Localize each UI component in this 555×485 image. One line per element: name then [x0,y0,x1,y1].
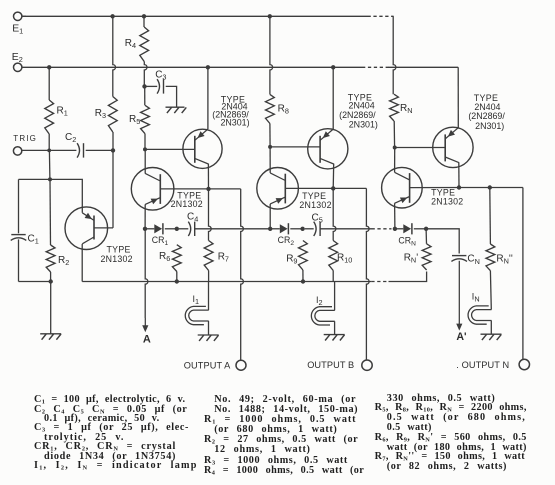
label Q1 TYPE [107,245,131,255]
wire stage1 NPN top [144,149,146,173]
svg-text:C5: C5 [312,213,323,225]
label C4 [187,212,198,224]
node stage2 collector junction [331,186,335,190]
wire C5 row dashed [372,228,392,230]
svg-text:E1: E1 [12,24,23,36]
label node A [143,334,151,346]
svg-text:OUTPUT A: OUTPUT A [184,360,231,370]
label E1 [12,24,23,36]
wire I2 top lead [334,282,336,311]
wire C3 to ground [166,86,177,106]
wire output A [209,189,244,360]
wire output N drop [522,188,524,360]
label stage2 NPN TYPE [302,191,326,201]
node stageN base junction [393,146,397,150]
wire output N row [459,187,523,189]
wire stage1 PNP base [145,148,195,150]
wire output B [333,188,369,360]
label R6 [159,251,170,263]
node rail2-R1 [47,65,51,69]
wire Q1 base [94,227,113,229]
lamp IN [468,306,491,324]
capacitor C2 [77,143,83,157]
label stage1 NPN 2N1302 [171,199,203,209]
wire CRN to RN' [414,228,426,230]
svg-text:C4: C4 [187,212,198,224]
ground R2 [40,334,61,340]
svg-text:2N301): 2N301) [475,121,504,131]
label R2 [58,255,69,267]
label node A' [456,331,466,343]
label stage2 2N2869 [339,110,376,120]
resistor R10 [329,241,338,271]
svg-text:E2: E2 [12,52,23,64]
resistor RN [390,94,399,121]
wire C4 to CR2 [195,228,270,230]
svg-text:A: A [143,334,151,346]
node RN'' top [488,185,492,189]
label TRIG [13,134,37,143]
diode CR1 [145,223,163,234]
node CR1 anode [143,227,147,231]
svg-text:R5: R5 [129,114,140,126]
svg-text:C2: C2 [65,132,76,144]
label I2 [316,295,323,307]
label stageN 2N301 [475,121,504,131]
label R10 [337,252,352,264]
svg-text:RN: RN [400,103,413,115]
label RN [400,103,413,115]
svg-text:R4: R4 [125,38,136,50]
terminal E2 [14,63,22,71]
label C1 [28,233,39,245]
label stageN NPN 2N1302 [431,196,463,206]
svg-text:C3: C3 [155,70,166,82]
wire R7 column [209,189,212,241]
node CR2 anode [268,227,272,231]
label stage2 TYPE [348,93,372,103]
wire I1 top lead [208,282,210,311]
wire stageN PNP emitter [457,67,459,127]
wire A line [142,229,148,332]
svg-text:2N1302: 2N1302 [171,199,203,209]
wire RN bottom [393,121,395,148]
ground C3 [166,107,187,113]
node TRIG junction [47,149,51,153]
wire R5 bottom [144,134,146,150]
wire CN to A' [456,261,462,331]
label R4 [125,38,136,50]
label stageN NPN TYPE [431,188,455,198]
wire C1 to R2 [19,281,51,283]
wire R2 bottom [50,272,52,282]
wire IN ground lead [490,321,492,335]
wire R1 top [48,67,50,100]
wire C3 lead [145,85,158,87]
label CRN [398,236,416,248]
label R5 [129,114,140,126]
wire I1 ground lead [208,321,210,335]
diode CRN [394,223,412,234]
svg-text:I2: I2 [316,295,323,307]
node rail2-Q4 emitter [331,65,335,69]
label R3 [95,108,106,120]
wire CR2 to C5 [290,228,302,230]
wire R3 column upper [113,16,116,96]
label CN [467,254,480,266]
svg-text:CN: CN [467,254,480,266]
label stageN 2N404 [474,102,500,112]
svg-text:(2N2869/: (2N2869/ [339,110,376,120]
node rail2-Q2 emitter [206,65,210,69]
terminal E1 [14,12,26,20]
resistor RN' [422,244,431,270]
node RN' top [424,227,428,231]
label E2 [12,52,23,64]
label C3 [155,70,166,82]
svg-text:R7: R7 [218,252,229,264]
label C2 [65,132,76,144]
node CRN anode [393,227,397,231]
svg-text:R8: R8 [278,103,289,115]
wire E2 rail dashed [362,66,389,68]
wire stage2 PNP emitter [332,67,334,129]
resistor R5 [141,105,150,133]
svg-text:(2N2869/: (2N2869/ [468,111,505,121]
wire stage2 PNP base [270,146,320,148]
wire R4 top [143,16,145,27]
wire to C1 [19,178,51,180]
wire bus to RN' [389,272,427,282]
node rail1-R8 [268,14,272,18]
node R2 bus [49,279,53,283]
svg-text:C1: C1 [28,233,39,245]
svg-text:R6: R6 [159,251,170,263]
resistor R6 [172,245,181,272]
wire stage2 NPN top [269,147,271,173]
wire CR1 to C4 [165,228,177,230]
svg-text:CRN: CRN [398,236,416,248]
wire stageN NPN top [394,148,396,173]
transistor 2N1302 no.1 [131,168,174,211]
wire R7 bottom [208,271,210,282]
wire R2 ground lead [50,282,52,334]
node rail1-R4 [142,14,146,18]
transistor 2N404 no.N [433,127,473,167]
lamp I2 [311,307,334,325]
label stage1 2N301 [220,118,249,128]
label R8 [278,103,289,115]
label R7 [218,252,229,264]
wire TRIG [22,149,77,151]
wire E2 rail [22,66,362,68]
svg-text:TRIG: TRIG [13,134,37,143]
wire Q1 emitter top [50,179,82,212]
wire C5 lead left [305,228,314,230]
node R6 top [175,227,179,231]
svg-text:A': A' [456,331,466,343]
node R9 bus [301,279,305,283]
wire R10 bottom [332,271,334,282]
svg-text:2N301): 2N301) [349,120,378,130]
wire R8 bottom [269,124,271,147]
wire stageN NPN base [410,187,459,189]
label OUTPUT A [184,360,231,370]
label RN'' [496,253,512,265]
svg-text:RN': RN' [404,253,419,265]
label OUTPUT B [307,360,354,370]
capacitor C4 [188,222,194,236]
svg-text:CR1: CR1 [152,235,169,247]
label CR1 [152,235,169,247]
wire E1 rail dashed [368,15,394,17]
wire C5 to CRN [320,228,371,230]
label stage2 NPN 2N1302 [299,200,331,210]
node C1 junction [48,177,52,181]
svg-text:R2: R2 [58,255,69,267]
label stage2 2N301 [349,120,378,130]
label RN' [404,253,419,265]
svg-text:R3: R3 [95,108,106,120]
resistor R3 [108,97,117,133]
svg-text:IN: IN [472,291,480,303]
wire stageN PNP base [395,147,446,149]
svg-text:R9: R9 [286,253,297,265]
node R9 top [300,227,304,231]
resistor R4 [140,27,149,62]
label stage1 TYPE [221,95,245,105]
svg-text:2N1302: 2N1302 [431,196,463,206]
wire R4 bottom [144,62,147,87]
label stageN 2N2869 [468,111,505,121]
ground I2 [324,335,345,341]
wire C1 bottom [18,239,20,281]
lamp I1 [185,306,208,324]
node C2-R3 [111,148,115,152]
label Q1 2N1302 [101,254,133,264]
wire E2 rail right [389,66,459,68]
wire R2 top [49,179,52,245]
svg-text:2N301): 2N301) [220,118,249,128]
label R9 [286,253,297,265]
wire Q1 collector bottom [81,244,83,282]
diode CR2 [270,223,288,234]
capacitor C5 [314,222,320,236]
transistor 2N1302 no.N [382,167,423,208]
label IN [472,291,480,303]
wire R8 column top [270,16,273,94]
label stageN TYPE [474,93,498,103]
label stage1 NPN TYPE [177,191,201,201]
wire R6 leads [176,272,178,282]
wire stage1 PNP emitter [207,67,209,129]
svg-text:. OUTPUT N: . OUTPUT N [456,360,509,370]
resistor R8 [266,94,275,123]
wire R3 bottom [112,132,114,228]
wire RN column top [393,16,396,94]
resistor R2 [46,245,55,272]
capacitor C1 [11,235,27,241]
svg-text:OUTPUT B: OUTPUT B [307,360,354,370]
label stage2 2N404 [349,101,375,111]
wire stage1 NPN base [160,188,208,190]
wire C2 to R3 [86,149,113,151]
wire stage1 PNP collector [207,164,209,189]
label R1 [57,105,68,117]
resistor R7 [204,241,213,271]
label stage1 2N404 [221,102,247,112]
svg-text:RN'': RN'' [496,253,512,265]
resistor R9 [299,241,308,271]
svg-text:R10: R10 [337,252,352,264]
node R6 bus [175,279,179,283]
svg-text:2N1302: 2N1302 [299,200,331,210]
wire R1-R2 link [48,150,51,179]
wire R5 top [144,86,146,105]
svg-text:2N1302: 2N1302 [101,254,133,264]
terminal TRIG [13,147,21,155]
wire RN'' to lamp [489,271,492,310]
wire C1 top [18,179,20,233]
label OUTPUT N [456,360,509,370]
wire emitter bus [82,281,371,283]
transistor 2N404 no.2 [308,129,348,169]
wire stage1 NPN emitter down [144,204,146,228]
label I1 [193,294,200,306]
wire rail1 corner to RN [392,15,394,18]
terminal OUTPUT B [362,360,372,370]
svg-text:CR2: CR2 [278,235,295,247]
label CR2 [278,235,295,247]
wire R9 bottom [302,270,304,282]
wire CRN junction to CN [426,229,459,254]
node stage2 base junction [268,145,272,149]
label C5 [312,213,323,225]
node stage1 collector junction [206,187,210,191]
node stage1 base junction [143,147,147,151]
wire C4 lead left [179,228,188,230]
terminal OUTPUT N [519,359,529,369]
wire R1 bottom [48,134,50,150]
wire stageN PNP collector [458,162,460,187]
node C3 junction [142,84,146,88]
ground I1 [198,335,219,341]
wire stage2 PNP collector [332,164,335,189]
resistor R1 [45,100,54,134]
wire stage2 NPN emitter down [269,204,271,229]
wire bus dashed [371,281,388,283]
wire R10 column [333,188,336,240]
wire RN' top lead [425,229,427,244]
svg-text:R1: R1 [57,105,68,117]
resistor RN'' [486,244,495,271]
node rail1-R3 [110,14,114,18]
transistor Q1 2N1302 [65,207,108,250]
transistor 2N1302 no.2 [257,168,299,210]
label stage1 2N2869 [212,110,249,120]
svg-text:I1: I1 [193,294,200,306]
ground IN [481,334,502,340]
wire stage2 NPN base [285,187,333,189]
terminal OUTPUT A [236,360,246,370]
wire RN'' top lead [489,188,492,245]
node stageN collector junction [457,185,461,189]
capacitor C3 [157,79,163,93]
wire E1 rail [22,15,368,17]
capacitor CN [451,256,467,262]
wire stageN NPN emitter down [394,203,396,229]
transistor 2N404 no.1 [183,129,222,168]
wire I2 ground lead [334,321,336,334]
